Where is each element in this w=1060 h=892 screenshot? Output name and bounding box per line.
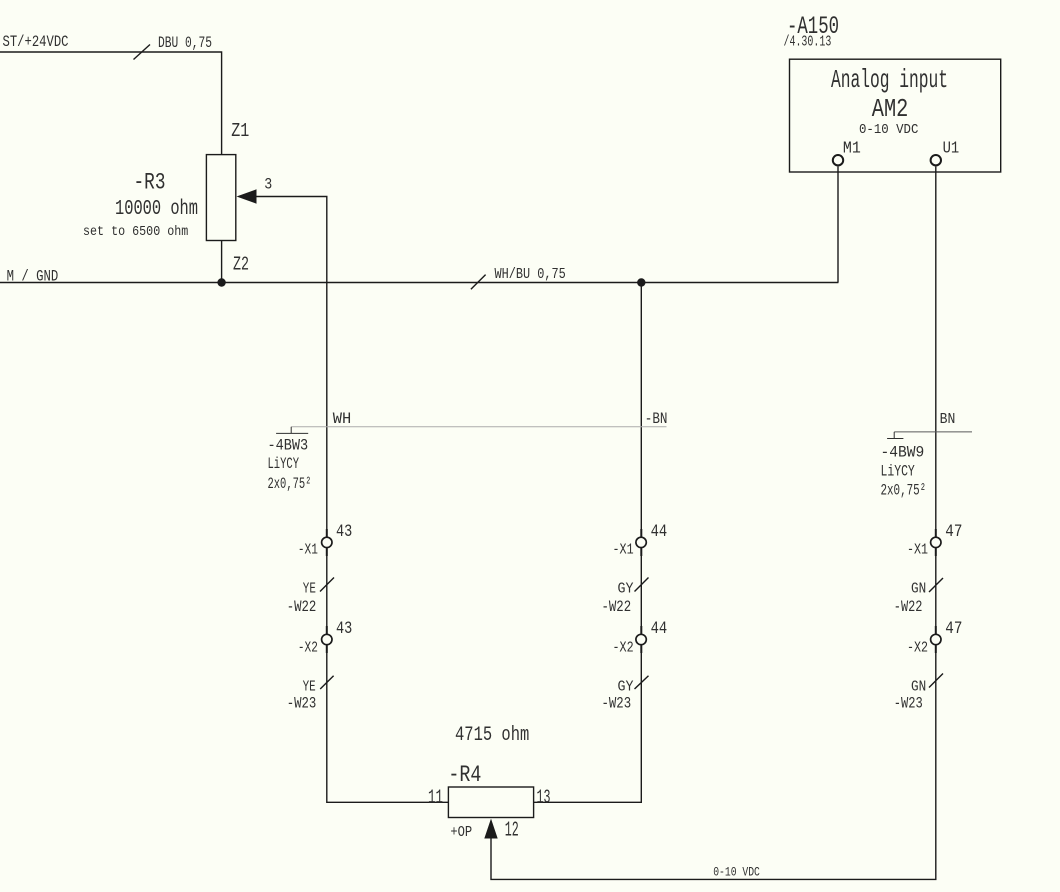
svg-text:-W22: -W22	[602, 598, 632, 616]
svg-text:-X1: -X1	[298, 543, 318, 559]
svg-text:M / GND: M / GND	[7, 267, 59, 285]
svg-text:-X1: -X1	[907, 543, 928, 559]
svg-text:Z2: Z2	[233, 253, 249, 275]
svg-text:LiYCY: LiYCY	[881, 463, 916, 481]
svg-text:-X1: -X1	[613, 543, 634, 559]
svg-text:/4.30.13: /4.30.13	[784, 35, 832, 51]
svg-text:4715 ohm: 4715 ohm	[455, 724, 529, 747]
svg-text:-W22: -W22	[287, 598, 317, 616]
svg-text:YE: YE	[303, 582, 316, 598]
svg-text:AM2: AM2	[872, 94, 909, 124]
svg-text:12: 12	[505, 817, 519, 842]
svg-text:BN: BN	[940, 412, 956, 428]
svg-text:47: 47	[945, 620, 962, 639]
svg-text:Analog input: Analog input	[831, 65, 948, 95]
svg-text:0-10 VDC: 0-10 VDC	[859, 122, 918, 138]
svg-text:47: 47	[945, 523, 962, 542]
svg-text:43: 43	[336, 523, 352, 542]
svg-text:44: 44	[651, 523, 668, 542]
svg-text:LiYCY: LiYCY	[268, 455, 300, 473]
svg-text:GN: GN	[911, 582, 926, 598]
svg-text:-W23: -W23	[894, 695, 923, 713]
svg-text:GN: GN	[911, 680, 926, 696]
svg-text:ST/+24VDC: ST/+24VDC	[3, 33, 69, 51]
svg-text:-4BW9: -4BW9	[881, 444, 925, 462]
svg-text:WH: WH	[333, 410, 352, 428]
svg-text:GY: GY	[618, 582, 634, 598]
svg-text:YE: YE	[303, 680, 316, 696]
svg-text:-4BW3: -4BW3	[268, 437, 309, 455]
svg-text:DBU 0,75: DBU 0,75	[158, 34, 212, 52]
svg-text:Z1: Z1	[231, 120, 249, 142]
svg-text:2x0,75²: 2x0,75²	[268, 475, 312, 493]
svg-text:44: 44	[651, 620, 668, 639]
svg-text:GY: GY	[618, 680, 634, 696]
svg-text:WH/BU 0,75: WH/BU 0,75	[495, 267, 566, 283]
svg-text:-X2: -X2	[613, 640, 634, 656]
svg-text:-R4: -R4	[448, 762, 481, 788]
svg-text:-W23: -W23	[287, 695, 317, 713]
svg-text:-BN: -BN	[645, 410, 668, 428]
svg-text:43: 43	[336, 620, 352, 639]
svg-text:+OP: +OP	[450, 823, 472, 841]
svg-text:-X2: -X2	[907, 640, 928, 656]
svg-text:-W22: -W22	[894, 598, 923, 616]
svg-text:3: 3	[264, 176, 272, 194]
svg-text:13: 13	[537, 786, 551, 808]
svg-text:0-10 VDC: 0-10 VDC	[713, 864, 760, 879]
svg-text:-W23: -W23	[602, 695, 632, 713]
svg-text:U1: U1	[943, 140, 960, 159]
svg-text:M1: M1	[843, 140, 861, 159]
svg-text:10000 ohm: 10000 ohm	[115, 196, 198, 221]
svg-text:2x0,75²: 2x0,75²	[881, 482, 927, 500]
svg-text:-X2: -X2	[298, 640, 318, 656]
svg-text:11: 11	[428, 786, 443, 808]
svg-text:set to 6500 ohm: set to 6500 ohm	[83, 224, 188, 240]
svg-text:-R3: -R3	[134, 169, 166, 195]
